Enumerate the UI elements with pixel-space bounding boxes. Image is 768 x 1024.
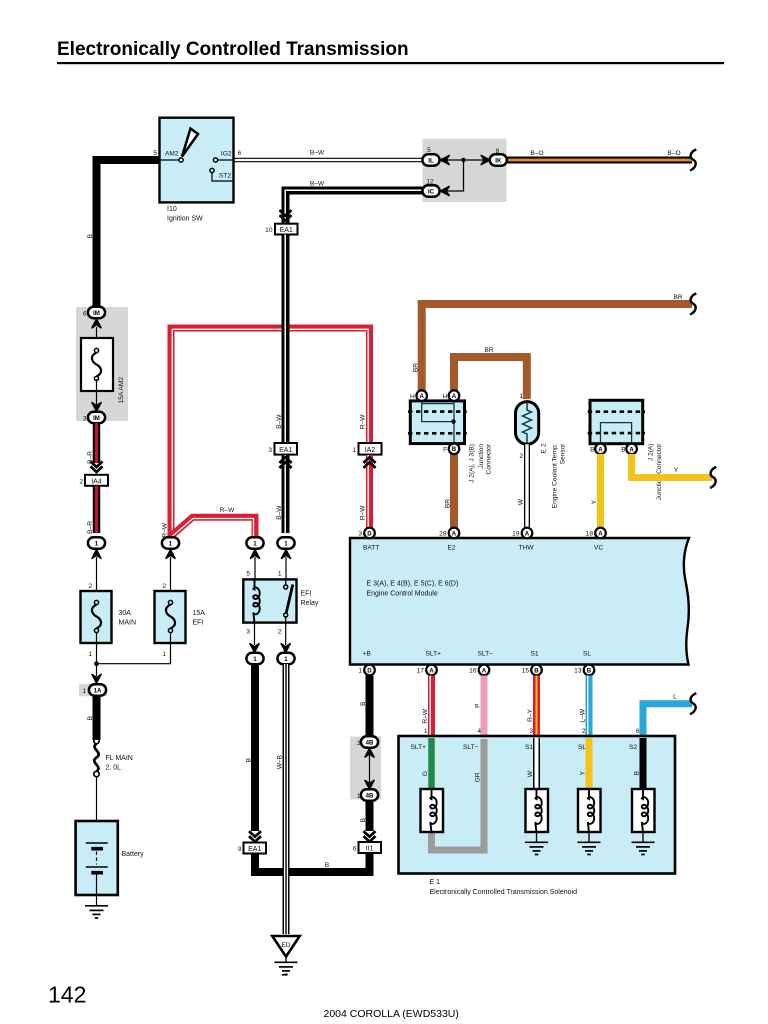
svg-text:R–W: R–W — [162, 522, 169, 537]
svg-text:4: 4 — [477, 728, 481, 735]
svg-text:BR: BR — [413, 363, 420, 372]
svg-text:D: D — [367, 530, 372, 537]
wire B-W EA1-10 to EA1-3 — [282, 235, 290, 444]
svg-text:5: 5 — [153, 150, 157, 157]
svg-text:10: 10 — [265, 227, 273, 234]
svg-text:3: 3 — [246, 629, 250, 636]
wire G — [428, 738, 435, 790]
svg-text:1: 1 — [278, 571, 282, 578]
svg-text:SLT−: SLT− — [463, 744, 479, 751]
svg-text:18: 18 — [586, 531, 594, 538]
svg-text:1: 1 — [82, 688, 86, 695]
resistor inside sensor — [523, 403, 532, 443]
junction block 1 IA2 — [364, 457, 376, 468]
svg-text:3: 3 — [358, 531, 362, 538]
wire R-W IA2 to ECM BATT — [366, 455, 373, 529]
wire R-W ECM SLT+ — [428, 676, 435, 737]
wire P ECM SLT- — [481, 676, 488, 737]
svg-text:13: 13 — [574, 668, 582, 675]
svg-text:R–Y: R–Y — [527, 708, 534, 721]
svg-text:15A: 15A — [193, 610, 206, 617]
svg-text:B: B — [87, 715, 94, 720]
ignition switch feed wire (B) from AM2 to IM — [97, 160, 161, 307]
junction block 3 EA1 — [280, 457, 292, 468]
arrow into IC — [441, 187, 450, 196]
svg-text:P: P — [475, 703, 482, 708]
page marker dash — [282, 974, 287, 976]
relay switch — [284, 585, 288, 589]
svg-text:IM: IM — [93, 310, 100, 317]
svg-text:1: 1 — [519, 393, 523, 400]
svg-text:R–W: R–W — [220, 507, 235, 514]
terminal arrow — [92, 674, 101, 683]
solenoid coil SL — [578, 789, 601, 832]
svg-text:Y: Y — [580, 770, 587, 775]
svg-text:SL: SL — [583, 651, 591, 658]
svg-text:R–W: R–W — [422, 708, 429, 723]
svg-text:IA2: IA2 — [365, 447, 376, 454]
svg-text:17: 17 — [417, 668, 425, 675]
svg-text:A: A — [629, 446, 634, 453]
svg-text:B: B — [87, 233, 94, 238]
svg-text:EA1: EA1 — [280, 227, 293, 234]
continuation curl Y — [710, 467, 716, 488]
connector 1 — [246, 653, 263, 664]
svg-text:30A: 30A — [119, 610, 132, 617]
arrow link between 4B connectors — [369, 750, 371, 788]
svg-text:R–W: R–W — [360, 505, 367, 520]
chevrons below EA1-3 redrawn — [280, 457, 292, 468]
svg-text:Relay: Relay — [301, 600, 319, 607]
svg-text:B–W: B–W — [310, 181, 325, 188]
svg-text:A: A — [525, 530, 530, 537]
svg-text:6: 6 — [238, 150, 242, 157]
svg-text:9: 9 — [238, 846, 242, 853]
chevrons into EA1-10 — [280, 210, 292, 221]
svg-text:Junction Connector: Junction Connector — [656, 443, 663, 501]
wire R-Y ECM S1 — [533, 676, 540, 737]
svg-text:S1: S1 — [525, 744, 533, 751]
connector 1 (EFI fuse) — [162, 537, 179, 548]
wire BR top rail to right edge — [422, 304, 692, 391]
svg-text:B–O: B–O — [667, 150, 680, 157]
wire L-W ECM SL — [586, 676, 593, 737]
svg-text:3: 3 — [529, 728, 533, 735]
arrow into IK — [481, 156, 490, 165]
relay coil — [253, 579, 259, 622]
terminal arrow — [92, 403, 101, 412]
continuation curl BR — [690, 293, 696, 314]
wire W-B relay to ED — [283, 664, 290, 934]
svg-text:19: 19 — [512, 531, 520, 538]
junction connector J2(A) — [590, 400, 643, 443]
solenoid coil S2 — [632, 789, 655, 832]
wire B-R IM to IA4 — [93, 423, 101, 463]
svg-text:EFI: EFI — [193, 620, 204, 627]
svg-text:5: 5 — [246, 571, 250, 578]
svg-text:B–O: B–O — [530, 150, 543, 157]
svg-text:L–W: L–W — [580, 708, 587, 722]
svg-text:G: G — [422, 771, 429, 776]
svg-text:MAIN: MAIN — [119, 620, 137, 627]
wire B — [640, 738, 647, 790]
svg-text:SLT+: SLT+ — [426, 651, 442, 658]
svg-text:W–B: W–B — [277, 754, 284, 769]
ground SL — [578, 842, 601, 854]
svg-text:W: W — [518, 498, 525, 505]
svg-text:15A AM2: 15A AM2 — [118, 377, 125, 404]
svg-text:28: 28 — [439, 531, 447, 538]
E2 coolant temp sensor — [516, 402, 539, 445]
internal link lines in connector box — [447, 160, 483, 191]
svg-text:H: H — [410, 394, 415, 401]
gray connector box (IL/IK/IC) — [423, 139, 507, 202]
svg-text:6: 6 — [353, 846, 357, 853]
svg-text:A: A — [482, 667, 487, 674]
svg-text:IL: IL — [428, 157, 434, 164]
svg-text:Sensor: Sensor — [560, 443, 567, 465]
terminal arrow — [92, 319, 101, 328]
svg-text:1: 1 — [352, 447, 356, 454]
ED ground — [275, 962, 298, 974]
svg-text:1A: 1A — [94, 687, 102, 694]
svg-text:Engine Coolant Temp.: Engine Coolant Temp. — [552, 443, 559, 508]
svg-text:E2: E2 — [448, 545, 456, 552]
wire Y to right edge — [632, 454, 712, 478]
lead to fuse 30A — [96, 557, 98, 603]
svg-text:ED: ED — [281, 942, 290, 949]
svg-text:A: A — [452, 530, 457, 537]
svg-text:2: 2 — [582, 728, 586, 735]
svg-text:A: A — [429, 667, 434, 674]
wire BR F(B) to ECM E2 — [450, 453, 458, 528]
svg-text:SL: SL — [578, 744, 586, 751]
battery ground — [85, 906, 108, 918]
svg-text:1: 1 — [88, 651, 92, 658]
svg-text:IG2: IG2 — [221, 151, 232, 158]
wire R-W branch to EFI relay — [171, 517, 255, 537]
svg-text:B: B — [452, 446, 457, 453]
fuse 15A AM2 — [81, 338, 113, 391]
svg-text:Y: Y — [674, 467, 679, 474]
svg-text:EA1: EA1 — [279, 447, 292, 454]
svg-text:EFI: EFI — [301, 591, 312, 598]
wire B-W from IG2 to IL (thin) — [233, 158, 423, 163]
solenoid coil SLT+ — [421, 789, 444, 832]
svg-text:16: 16 — [469, 668, 477, 675]
svg-text:A: A — [598, 446, 603, 453]
ED ground triangle — [272, 936, 299, 957]
svg-text:B: B — [587, 667, 592, 674]
junction dot — [461, 158, 465, 162]
svg-text:S1: S1 — [531, 651, 539, 658]
ignition switch I10 box — [160, 118, 234, 203]
svg-text:2: 2 — [278, 629, 282, 636]
wire B-R IA4 to junction 1 — [93, 486, 101, 533]
svg-text:Connector: Connector — [486, 443, 493, 474]
svg-text:E 3(A), E 4(B), E 5(C), E 6(D): E 3(A), E 4(B), E 5(C), E 6(D) — [367, 581, 459, 588]
ground S1 — [525, 842, 548, 854]
ground S2 — [632, 842, 655, 854]
connector 1 (relay pin1) — [277, 537, 294, 548]
solenoid coil S1 — [526, 789, 549, 832]
svg-text:A: A — [598, 530, 603, 537]
svg-text:5: 5 — [427, 147, 431, 154]
terminal arrow — [92, 550, 101, 559]
svg-text:BATT: BATT — [363, 545, 379, 552]
wire B ECM to 4B — [366, 676, 374, 738]
svg-text:2. 0L: 2. 0L — [106, 765, 122, 772]
svg-text:R–W: R–W — [360, 414, 367, 429]
svg-text:GR: GR — [475, 772, 482, 782]
connector 1 — [277, 653, 294, 664]
connector 1 (relay pin5) — [246, 537, 263, 548]
wire L from right edge to S2 — [643, 704, 692, 736]
chevrons into EA1-9 — [249, 831, 261, 842]
svg-text:IK: IK — [495, 157, 502, 164]
svg-text:2: 2 — [162, 583, 166, 590]
svg-text:S2: S2 — [629, 744, 637, 751]
svg-text:6: 6 — [83, 311, 87, 318]
svg-text:FL MAIN: FL MAIN — [106, 755, 133, 762]
lead out of fuse — [96, 379, 98, 406]
svg-text:Electronically Controlled Tran: Electronically Controlled Transmission — [57, 39, 409, 60]
fusible link FL MAIN 2.0L — [94, 738, 99, 776]
svg-text:F: F — [443, 447, 447, 454]
svg-text:1: 1 — [358, 668, 362, 675]
wire B-O from IK to right edge — [506, 157, 692, 164]
svg-text:B: B — [325, 862, 330, 869]
junction dot — [94, 661, 99, 666]
svg-text:Ignition SW: Ignition SW — [167, 216, 203, 223]
svg-text:E 1: E 1 — [430, 879, 441, 886]
wire GR loop — [432, 739, 485, 850]
continuation curl L — [690, 693, 696, 714]
svg-text:IC: IC — [428, 188, 435, 195]
svg-text:VC: VC — [594, 545, 603, 552]
wire B bottom rail EA1-9 to II1-6 — [255, 853, 370, 873]
svg-text:B–R: B–R — [87, 521, 94, 534]
gray fuse block box 15A AM2 — [76, 307, 128, 421]
svg-text:Electronically Controlled Tran: Electronically Controlled Transmission S… — [430, 889, 578, 896]
svg-text:IA4: IA4 — [91, 478, 102, 485]
svg-text:SLT−: SLT− — [478, 651, 494, 658]
battery — [76, 821, 118, 895]
lead into fuse — [96, 327, 98, 350]
wire B relay to EA1-9 — [251, 664, 259, 831]
svg-text:Engine Control Module: Engine Control Module — [367, 591, 438, 598]
svg-text:2: 2 — [519, 453, 523, 460]
svg-text:6: 6 — [636, 728, 640, 735]
lead to junction dot — [96, 633, 98, 664]
wire BR jumper H to sensor — [454, 357, 527, 399]
svg-text:142: 142 — [48, 982, 86, 1008]
svg-text:B: B — [246, 757, 253, 762]
svg-text:THW: THW — [519, 545, 535, 552]
ECM box (Engine Control Module) — [350, 538, 689, 665]
chevrons into IA4 — [91, 461, 103, 472]
wire W — [533, 738, 540, 790]
svg-text:IM: IM — [93, 415, 100, 422]
continuation curl B-O — [690, 149, 696, 170]
svg-text:B–W: B–W — [276, 505, 283, 520]
svg-text:J 2(A), J 3(B): J 2(A), J 3(B) — [469, 444, 476, 483]
svg-text:2: 2 — [79, 479, 83, 486]
svg-text:BR: BR — [673, 294, 682, 301]
wire B-W EA1-3 to relay — [282, 455, 290, 533]
svg-text:4B: 4B — [366, 739, 374, 746]
lead from EFI fuse to junction dot — [98, 633, 171, 664]
gray band 1A — [79, 684, 107, 696]
svg-text:A: A — [419, 393, 424, 400]
wire W sensor to ECM THW — [524, 444, 530, 528]
chevrons into II1 — [364, 831, 376, 842]
svg-text:3: 3 — [83, 416, 87, 423]
svg-text:B: B — [360, 701, 367, 706]
svg-text:B–W: B–W — [276, 414, 283, 429]
svg-text:Junction: Junction — [478, 444, 485, 469]
svg-text:I10: I10 — [167, 206, 177, 213]
svg-text:J 2(A): J 2(A) — [648, 444, 655, 462]
svg-text:Y: Y — [591, 499, 598, 504]
svg-text:1: 1 — [162, 651, 166, 658]
svg-text:ST2: ST2 — [219, 173, 231, 180]
junction connector J2(A),J3(B) — [410, 401, 464, 444]
svg-text:BR: BR — [445, 499, 452, 508]
svg-text:EA1: EA1 — [248, 846, 261, 853]
gray band 4B — [350, 737, 381, 800]
title underline — [57, 62, 724, 64]
wire Y J2 to ECM VC — [597, 454, 604, 528]
svg-text:15: 15 — [522, 668, 530, 675]
switch lever — [182, 129, 198, 157]
svg-text:B: B — [634, 770, 641, 775]
svg-text:Battery: Battery — [122, 851, 145, 858]
svg-text:4B: 4B — [366, 792, 374, 799]
svg-text:B–W: B–W — [310, 150, 325, 157]
svg-text:W: W — [527, 770, 534, 777]
arrow into IL — [441, 156, 450, 165]
svg-text:D: D — [367, 667, 372, 674]
wire Y — [586, 738, 593, 790]
svg-text:SLT+: SLT+ — [411, 744, 427, 751]
lead to battery — [96, 777, 98, 843]
svg-text:A: A — [452, 393, 457, 400]
svg-text:AM2: AM2 — [165, 151, 179, 158]
chevrons below IA2 redrawn — [364, 457, 376, 468]
svg-text:BR: BR — [484, 347, 493, 354]
fuse 30A MAIN — [81, 591, 112, 643]
svg-text:3: 3 — [268, 447, 272, 454]
svg-text:E 2: E 2 — [541, 443, 548, 453]
svg-text:B: B — [534, 667, 539, 674]
wire B to FL MAIN — [93, 696, 101, 740]
svg-text:1: 1 — [424, 728, 428, 735]
leads below relay — [254, 623, 256, 645]
wire B-W thick: corner to EA1-10 and to IC — [286, 191, 424, 225]
svg-text:II1: II1 — [366, 846, 374, 853]
svg-text:2004 COROLLA (EWD533U): 2004 COROLLA (EWD533U) — [324, 1008, 459, 1020]
svg-text:B: B — [360, 817, 367, 822]
svg-text:2: 2 — [88, 583, 92, 590]
EFI relay box — [243, 579, 296, 622]
svg-text:+B: +B — [363, 651, 372, 658]
svg-text:H: H — [442, 394, 447, 401]
connector 1 — [88, 537, 105, 548]
ST2 contact — [210, 168, 214, 172]
svg-text:L: L — [673, 694, 677, 701]
wire R-W main rail: EFI fuse up, across, down to IA2 — [171, 328, 370, 537]
wire B 4B to II1 — [366, 800, 374, 831]
fuse 15A EFI — [155, 591, 186, 643]
